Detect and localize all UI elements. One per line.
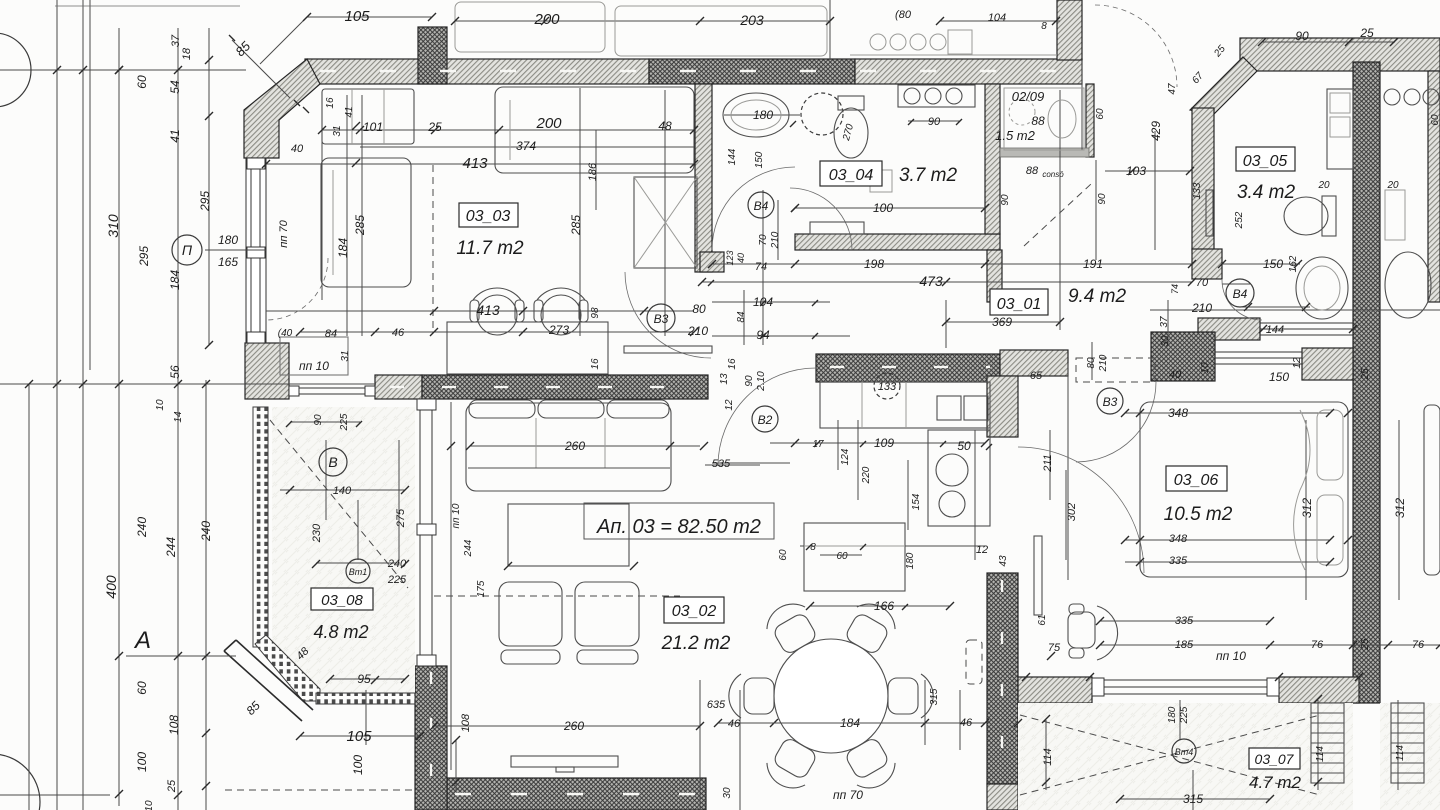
svg-text:185: 185 (1175, 639, 1194, 651)
svg-text:295: 295 (137, 246, 151, 267)
svg-text:90: 90 (313, 414, 324, 426)
svg-text:133: 133 (878, 381, 897, 393)
svg-text:175: 175 (476, 580, 487, 597)
svg-text:30: 30 (722, 787, 733, 799)
svg-text:225: 225 (339, 413, 350, 431)
svg-text:285: 285 (569, 215, 583, 236)
svg-text:02/09: 02/09 (1012, 89, 1045, 104)
svg-text:В4: В4 (1233, 287, 1248, 301)
svg-text:40: 40 (736, 253, 746, 263)
svg-text:335: 335 (1175, 615, 1194, 627)
svg-text:65: 65 (1030, 370, 1043, 382)
svg-text:244: 244 (164, 537, 178, 558)
svg-text:210: 210 (770, 231, 781, 249)
svg-text:98: 98 (590, 307, 601, 319)
svg-text:252: 252 (1234, 211, 1245, 229)
svg-text:90: 90 (928, 116, 941, 128)
svg-text:10: 10 (144, 800, 155, 810)
svg-text:109: 109 (874, 436, 894, 450)
svg-text:8: 8 (810, 542, 816, 553)
svg-text:03_05: 03_05 (1243, 153, 1288, 170)
svg-text:40: 40 (291, 143, 304, 155)
svg-text:240: 240 (199, 521, 213, 542)
svg-text:47: 47 (1167, 83, 1178, 95)
svg-text:21.2 m2: 21.2 m2 (661, 633, 731, 654)
svg-text:400: 400 (103, 575, 119, 599)
svg-text:154: 154 (911, 493, 922, 510)
svg-text:100: 100 (135, 752, 149, 772)
svg-text:60: 60 (1430, 114, 1440, 126)
svg-text:25: 25 (166, 779, 178, 793)
svg-text:60: 60 (836, 551, 848, 562)
svg-text:348: 348 (1168, 406, 1188, 420)
svg-text:пп 10: пп 10 (1216, 649, 1246, 663)
svg-text:429: 429 (1149, 121, 1163, 141)
svg-text:В3: В3 (1103, 395, 1118, 409)
svg-text:114: 114 (1395, 745, 1406, 761)
svg-text:60: 60 (135, 75, 149, 89)
svg-text:3.7 m2: 3.7 m2 (899, 165, 958, 186)
svg-text:56: 56 (168, 365, 182, 379)
svg-text:240: 240 (135, 517, 149, 538)
svg-text:16: 16 (727, 358, 738, 370)
svg-text:пп 70: пп 70 (278, 219, 290, 247)
svg-text:275: 275 (395, 508, 407, 528)
svg-text:273: 273 (548, 323, 569, 337)
svg-text:9.4 m2: 9.4 m2 (1068, 286, 1127, 307)
svg-text:369: 369 (992, 315, 1012, 329)
svg-text:635: 635 (707, 699, 726, 711)
svg-text:74: 74 (755, 261, 767, 273)
svg-text:2.10: 2.10 (756, 371, 767, 392)
svg-text:43: 43 (998, 555, 1009, 567)
svg-text:25: 25 (1360, 638, 1371, 651)
svg-text:12: 12 (976, 544, 988, 556)
svg-text:191: 191 (1083, 257, 1103, 271)
svg-text:12: 12 (724, 399, 735, 411)
svg-text:20: 20 (1317, 180, 1330, 191)
svg-text:210: 210 (1098, 354, 1109, 372)
svg-text:90: 90 (1295, 29, 1309, 43)
svg-text:260: 260 (564, 439, 585, 453)
svg-text:104: 104 (988, 12, 1006, 24)
svg-text:(80: (80 (895, 9, 912, 21)
svg-text:260: 260 (563, 719, 584, 733)
svg-text:48: 48 (658, 119, 672, 133)
svg-text:14: 14 (173, 411, 184, 423)
svg-text:пп 10: пп 10 (451, 503, 462, 528)
svg-text:31: 31 (332, 125, 343, 136)
svg-text:03_04: 03_04 (829, 167, 874, 184)
svg-text:30: 30 (1160, 335, 1171, 347)
svg-text:133: 133 (1192, 182, 1203, 199)
svg-text:37: 37 (170, 34, 182, 47)
svg-text:473: 473 (919, 273, 943, 289)
svg-text:В4: В4 (754, 199, 769, 213)
svg-text:114: 114 (1042, 748, 1054, 766)
svg-text:211: 211 (1042, 454, 1054, 473)
svg-text:225: 225 (387, 574, 407, 586)
svg-text:60: 60 (778, 549, 789, 561)
svg-text:144: 144 (1266, 324, 1284, 336)
svg-text:13: 13 (719, 373, 730, 385)
svg-text:114: 114 (1315, 746, 1326, 762)
svg-text:90: 90 (1000, 194, 1011, 206)
svg-text:150: 150 (1269, 370, 1289, 384)
svg-text:348: 348 (1169, 533, 1188, 545)
svg-text:60: 60 (135, 681, 149, 695)
svg-text:В3: В3 (654, 312, 669, 326)
svg-text:20: 20 (1386, 180, 1399, 191)
svg-text:105: 105 (344, 8, 370, 25)
svg-text:46: 46 (728, 718, 741, 730)
svg-text:84: 84 (325, 328, 337, 340)
svg-text:80: 80 (692, 302, 706, 316)
svg-text:413: 413 (462, 155, 488, 172)
svg-text:03_01: 03_01 (997, 296, 1042, 313)
svg-text:165: 165 (218, 255, 238, 269)
svg-text:61: 61 (1037, 614, 1048, 625)
svg-text:184: 184 (336, 238, 350, 258)
svg-text:108: 108 (460, 713, 472, 732)
svg-text:374: 374 (516, 139, 536, 153)
svg-text:В2: В2 (758, 413, 773, 427)
svg-text:150: 150 (754, 151, 765, 168)
svg-text:50: 50 (957, 439, 971, 453)
svg-text:76: 76 (1311, 639, 1324, 651)
svg-text:230: 230 (311, 523, 323, 543)
svg-text:54: 54 (168, 80, 182, 94)
svg-text:312: 312 (1300, 498, 1314, 518)
svg-text:3.4 m2: 3.4 m2 (1237, 182, 1296, 203)
svg-text:310: 310 (105, 214, 121, 238)
svg-text:335: 335 (1169, 555, 1188, 567)
svg-text:180: 180 (753, 108, 773, 122)
svg-text:25: 25 (1360, 368, 1371, 381)
svg-text:184: 184 (168, 270, 182, 290)
svg-text:25: 25 (1359, 26, 1374, 40)
svg-text:В: В (328, 454, 337, 470)
svg-text:210: 210 (1191, 301, 1212, 315)
svg-text:302: 302 (1066, 503, 1078, 521)
svg-text:16: 16 (590, 358, 601, 370)
svg-text:Ап. 03 = 82.50 m2: Ап. 03 = 82.50 m2 (596, 516, 761, 538)
svg-text:8: 8 (1041, 21, 1047, 32)
svg-text:244: 244 (463, 539, 474, 557)
svg-text:70: 70 (758, 234, 769, 246)
svg-text:1.5 m2: 1.5 m2 (995, 128, 1036, 143)
svg-text:100: 100 (351, 755, 365, 775)
svg-text:90: 90 (744, 375, 755, 387)
svg-text:4.7 m2: 4.7 m2 (1249, 773, 1302, 792)
svg-text:18: 18 (181, 47, 193, 60)
svg-text:40: 40 (1169, 369, 1182, 381)
svg-text:186: 186 (587, 162, 599, 181)
svg-text:Вт1: Вт1 (349, 567, 368, 577)
svg-text:203: 203 (739, 12, 764, 28)
svg-text:25: 25 (427, 120, 442, 134)
svg-text:16: 16 (325, 97, 336, 109)
svg-text:10: 10 (1200, 362, 1211, 374)
svg-text:03_02: 03_02 (672, 603, 717, 620)
svg-text:88: 88 (1026, 165, 1039, 177)
svg-text:76: 76 (1412, 639, 1425, 651)
svg-text:03_08: 03_08 (321, 592, 363, 609)
svg-text:140: 140 (333, 485, 352, 497)
svg-text:101: 101 (363, 120, 383, 134)
svg-text:144: 144 (727, 148, 738, 165)
svg-text:95: 95 (357, 672, 371, 686)
svg-text:03_03: 03_03 (466, 208, 511, 225)
svg-text:225: 225 (1179, 706, 1190, 724)
svg-text:150: 150 (1263, 257, 1283, 271)
svg-text:88: 88 (1031, 114, 1045, 128)
svg-text:пп 70: пп 70 (833, 788, 863, 802)
svg-text:03_07: 03_07 (1255, 751, 1295, 767)
svg-text:11.7 m2: 11.7 m2 (456, 238, 524, 259)
svg-text:220: 220 (861, 466, 872, 484)
svg-text:105: 105 (346, 728, 372, 745)
svg-text:312: 312 (1393, 498, 1407, 518)
svg-text:41: 41 (168, 129, 182, 142)
svg-text:200: 200 (535, 115, 562, 132)
svg-text:90: 90 (1097, 193, 1108, 205)
svg-text:123: 123 (725, 250, 735, 265)
svg-text:17: 17 (812, 439, 824, 450)
svg-text:84: 84 (736, 311, 747, 323)
svg-text:37: 37 (1159, 316, 1170, 328)
svg-text:П: П (182, 242, 193, 258)
svg-text:А: А (133, 627, 151, 654)
svg-text:46: 46 (960, 717, 973, 729)
svg-text:(40: (40 (278, 328, 293, 339)
svg-text:41: 41 (344, 106, 355, 117)
svg-text:4.8 m2: 4.8 m2 (313, 622, 368, 642)
svg-text:46: 46 (392, 327, 405, 339)
svg-text:03_06: 03_06 (1174, 472, 1219, 489)
svg-text:100: 100 (873, 201, 893, 215)
svg-text:124: 124 (840, 448, 851, 465)
svg-text:315: 315 (929, 688, 940, 705)
svg-text:535: 535 (712, 458, 731, 470)
svg-text:10.5 m2: 10.5 m2 (1164, 504, 1233, 525)
svg-text:consö: consö (1042, 170, 1064, 179)
svg-text:70: 70 (1196, 277, 1209, 289)
svg-text:103: 103 (1126, 164, 1146, 178)
svg-text:74: 74 (1170, 284, 1180, 294)
svg-text:80: 80 (1086, 357, 1097, 369)
svg-text:180: 180 (1167, 706, 1178, 723)
svg-text:180: 180 (905, 552, 916, 569)
svg-text:413: 413 (476, 302, 500, 318)
svg-text:Вт4: Вт4 (1175, 747, 1194, 757)
svg-text:31: 31 (340, 350, 351, 361)
svg-text:166: 166 (874, 599, 894, 613)
svg-text:пп 10: пп 10 (299, 359, 329, 373)
svg-text:198: 198 (864, 257, 884, 271)
svg-text:108: 108 (167, 715, 181, 735)
svg-text:60: 60 (1095, 108, 1106, 120)
svg-text:295: 295 (198, 191, 212, 212)
svg-text:315: 315 (1183, 792, 1203, 806)
svg-text:10: 10 (155, 399, 166, 411)
svg-text:12: 12 (1292, 357, 1303, 369)
svg-text:180: 180 (218, 233, 238, 247)
svg-text:285: 285 (353, 215, 367, 236)
